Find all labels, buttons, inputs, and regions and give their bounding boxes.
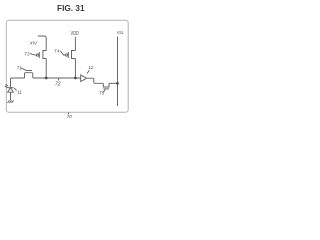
op-amp buffer 12	[81, 75, 87, 82]
wire VSL vertical	[117, 37, 119, 106]
transistor T3 gate	[38, 52, 40, 58]
node 72 tick	[57, 78, 60, 80]
wire T3 top terminal	[38, 36, 46, 51]
photodiode 11	[8, 87, 14, 89]
wire VDD to T4	[74, 37, 76, 51]
leader label 11	[14, 88, 17, 90]
svg-text:T5: T5	[99, 90, 105, 95]
wire buffer output	[87, 78, 104, 83]
wire diode to ground	[10, 92, 12, 100]
svg-text:FIG. 31: FIG. 31	[57, 3, 85, 13]
wire node left segment	[11, 78, 25, 87]
transistor T4 gate	[67, 52, 69, 58]
leader label 12	[87, 70, 89, 73]
svg-text:T1: T1	[17, 66, 23, 71]
svg-text:11: 11	[17, 90, 22, 95]
photodiode arrows	[5, 84, 8, 88]
wire T4 gate lead	[63, 54, 65, 56]
wire T4 source down	[74, 59, 76, 79]
wire T3 source down	[45, 59, 47, 79]
leader label T4	[60, 51, 63, 55]
transistor T5 gate	[104, 88, 110, 90]
junction node B	[74, 77, 77, 80]
svg-text:70: 70	[67, 114, 73, 119]
leader label T3	[30, 53, 34, 55]
ground	[8, 100, 14, 103]
svg-text:T3: T3	[24, 51, 30, 56]
svg-text:T4: T4	[54, 48, 60, 53]
svg-text:72: 72	[55, 82, 61, 88]
junction node A	[45, 77, 48, 80]
transistor T5 channel	[103, 83, 109, 87]
transistor T3 channel	[43, 51, 46, 59]
wire T3 gate lead	[34, 54, 36, 56]
svg-text:XIV: XIV	[29, 41, 38, 46]
leader label T5	[103, 89, 105, 92]
transistor T3 gate bubble	[36, 54, 38, 56]
wire node 72 horizontal	[33, 77, 81, 79]
transistor T4 gate bubble	[65, 54, 67, 56]
node 70 tick	[67, 112, 70, 114]
transistor T1 channel	[25, 73, 33, 78]
transistor T4 channel	[72, 51, 76, 59]
svg-text:VSL: VSL	[117, 30, 125, 35]
svg-text:12: 12	[88, 65, 94, 70]
wire T5 to VSL	[109, 82, 118, 84]
leader label T1	[21, 68, 26, 70]
transistor T1 gate	[26, 70, 33, 72]
junction node VSL	[116, 82, 119, 85]
svg-text:VDD: VDD	[71, 31, 80, 37]
